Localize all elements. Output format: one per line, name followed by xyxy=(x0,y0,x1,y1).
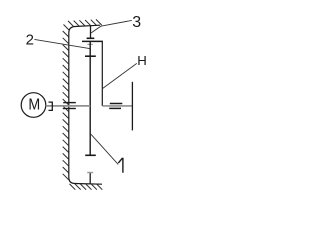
wall hatching left xyxy=(63,25,70,180)
svg-text:M: M xyxy=(28,96,40,114)
gear 3 rim bar xyxy=(82,40,103,42)
gear 1 bar xyxy=(85,154,96,156)
bearing top bar xyxy=(63,102,76,104)
svg-text:3: 3 xyxy=(132,14,141,31)
motor M circle xyxy=(21,93,46,118)
gear 3 fixed stub xyxy=(90,26,92,39)
central shaft xyxy=(89,41,91,155)
coupling bracket xyxy=(49,102,53,110)
leader H xyxy=(102,63,136,88)
motor shaft xyxy=(46,105,90,107)
member right vertical xyxy=(101,41,103,106)
wall hatching bottom xyxy=(70,184,103,190)
carrier arm gray line xyxy=(102,105,132,107)
frame wall outline xyxy=(69,25,102,184)
gear mesh bar upper xyxy=(110,103,123,105)
gear 3 tooth bar xyxy=(87,37,95,39)
gear hub small bar xyxy=(87,43,93,45)
label 1 xyxy=(118,158,123,173)
lower support bar xyxy=(87,172,93,174)
bearing bottom bar xyxy=(63,108,76,110)
svg-text:2: 2 xyxy=(26,31,34,48)
leader 3 xyxy=(91,20,132,33)
leader 1 xyxy=(91,134,118,164)
gear 2 bar xyxy=(85,55,96,57)
output shaft xyxy=(131,82,133,131)
svg-text:H: H xyxy=(137,53,147,68)
gear mesh bar lower xyxy=(109,107,121,109)
lower support stub xyxy=(89,173,91,184)
wall hatching top xyxy=(68,19,102,26)
leader 2 xyxy=(34,39,89,48)
